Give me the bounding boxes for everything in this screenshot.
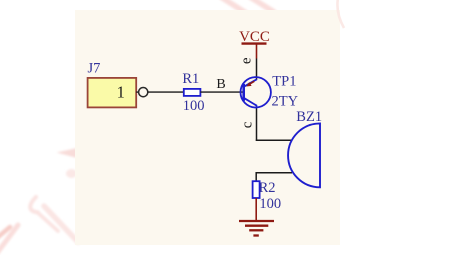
- svg-text:e: e: [238, 57, 254, 64]
- transistor emitter diagonal: [245, 79, 257, 86]
- watermark small blob left margin: [66, 169, 77, 178]
- watermark lower-left diagonal: [0, 225, 18, 253]
- svg-text:100: 100: [183, 98, 205, 114]
- wire VCC to emitter: [256, 59, 258, 81]
- power port VCC bar: [242, 42, 267, 44]
- power port VCC stub: [256, 44, 258, 59]
- svg-text:c: c: [239, 121, 255, 128]
- transistor PNP arrow line: [249, 81, 254, 84]
- schematic sheet: [75, 10, 340, 245]
- svg-text:J7: J7: [88, 61, 101, 77]
- wire buzzer bottom pin branch: [256, 173, 292, 182]
- transistor base bar: [242, 84, 245, 101]
- wire R1 to base: [200, 91, 243, 93]
- buzzer BZ1 body: [288, 123, 320, 187]
- ground bar 2: [245, 225, 268, 227]
- ground stub: [255, 198, 257, 220]
- svg-text:R1: R1: [182, 71, 199, 87]
- watermark stroke top-right diagonal: [250, 0, 274, 12]
- ground bar 1: [239, 220, 274, 222]
- transistor collector stub: [256, 105, 258, 109]
- watermark hook stroke left margin: [30, 197, 38, 213]
- watermark long diagonal left margin: [37, 212, 58, 231]
- transistor PNP arrow head: [246, 82, 251, 86]
- ground bar 3: [249, 229, 263, 231]
- svg-text:TP1: TP1: [272, 74, 296, 90]
- svg-text:100: 100: [259, 196, 281, 212]
- resistor R2: [253, 181, 260, 198]
- wire J7 to R1: [148, 91, 184, 93]
- svg-text:B: B: [216, 77, 225, 92]
- wire collector down: [256, 109, 258, 142]
- watermark stroke top-left diagonal: [221, 0, 246, 13]
- connector J7 body: [88, 78, 137, 108]
- transistor TP1 circle: [241, 77, 271, 107]
- watermark curve at sheet top-right edge: [337, 0, 344, 28]
- resistor R1: [184, 89, 201, 96]
- svg-text:1: 1: [117, 82, 125, 101]
- ground bar 4: [253, 234, 258, 236]
- wire elbow to buzzer top pin: [256, 139, 292, 141]
- svg-text:2TY: 2TY: [272, 94, 299, 110]
- watermark long diagonal 2 left margin: [44, 206, 78, 242]
- watermark arrow blob left margin: [57, 148, 78, 158]
- svg-text:R2: R2: [259, 180, 276, 196]
- pin stub of J7: [136, 91, 139, 93]
- pin circle: [139, 88, 148, 97]
- watermark corner dark tip: [0, 227, 10, 237]
- transistor collector diagonal: [245, 98, 257, 105]
